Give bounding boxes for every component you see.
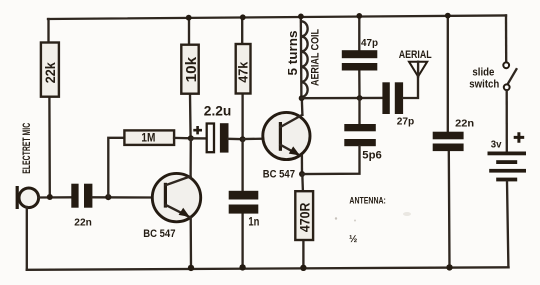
wire mic output to 22n (39, 196, 72, 199)
resistor 1M (124, 130, 174, 145)
wire 22n to Q1 base (92, 196, 152, 199)
scan smudge (403, 212, 411, 216)
svg-text:3v: 3v (491, 139, 502, 150)
svg-text:slide: slide (472, 66, 494, 78)
resistor 470R (295, 191, 313, 240)
scan speck (354, 220, 356, 222)
inductor L1 aerial coil (301, 16, 308, 98)
switch S1 slide switch (503, 62, 516, 90)
wire emitter to 470R (302, 174, 303, 268)
wire Q2 collector up (301, 98, 304, 115)
wire switch to battery (506, 90, 508, 151)
wire top rail right corner down to switch (505, 15, 508, 62)
svg-text:27p: 27p (397, 116, 415, 128)
node mic/22k junction (47, 194, 53, 200)
svg-text:5p6: 5p6 (362, 149, 382, 161)
svg-text:10k: 10k (184, 56, 200, 82)
capacitor 22n (left) (71, 184, 92, 229)
node 47k/2.2u/1n/Q2 base (240, 136, 246, 142)
wire mid rail (302, 97, 383, 100)
svg-text:BC 547: BC 547 (263, 168, 295, 180)
wire Q1 emitter down (190, 218, 193, 268)
capacitor 27p (382, 82, 414, 127)
wire top rail (48, 15, 506, 19)
capacitor 5p6 (344, 124, 382, 161)
svg-text:22k: 22k (42, 62, 58, 83)
wire 1M branch up and across (108, 138, 124, 197)
wire Q2 emitter down (301, 156, 303, 174)
capacitor 1n (229, 191, 260, 229)
electret mic (16, 186, 39, 209)
wire 47p drop (358, 16, 361, 98)
node mid rail / 47p / 27p / 5p6 (357, 95, 363, 101)
node coil top / rail (298, 14, 304, 20)
resistor 47k (236, 44, 251, 94)
antenna symbol (409, 62, 427, 77)
transistor Q1 BC547 (152, 173, 200, 221)
node top rail / 47k (240, 14, 246, 20)
wire 10k drop (189, 18, 191, 139)
wire left drop from rail to R 22k (49, 19, 50, 197)
wire 27p to aerial (403, 77, 418, 99)
node 22n/1M junction (105, 194, 111, 200)
svg-text:½: ½ (349, 234, 357, 245)
svg-text:2.2u: 2.2u (204, 103, 232, 119)
svg-text:5 turns: 5 turns (285, 31, 300, 76)
svg-text:AERIAL: AERIAL (399, 49, 432, 61)
node 10k/1M/2.2u/collector (188, 135, 194, 141)
svg-text:22n: 22n (74, 216, 92, 228)
svg-text:BC 547: BC 547 (143, 228, 175, 240)
capacitor 22n (right) (433, 118, 474, 152)
scan speck (335, 217, 337, 219)
wire 5p6 return to emitter (302, 146, 360, 174)
svg-text:1n: 1n (248, 215, 259, 229)
battery B1 3v (488, 132, 527, 181)
resistor 10k (181, 45, 200, 94)
wire 47k drop (241, 17, 244, 139)
svg-text:switch: switch (469, 79, 499, 91)
node top rail / 10k (186, 15, 192, 21)
wire 1M to node (174, 137, 191, 140)
wire Q1 collector up (189, 138, 192, 178)
wire battery to bottom rail (507, 181, 508, 267)
wire to 5p6 (358, 98, 360, 124)
node Q2 emitter / 5p6 return (299, 171, 305, 177)
capacitor 2.2u electrolytic (191, 103, 243, 153)
node 470R/bottom rail (300, 265, 306, 271)
wire 1n drop (241, 139, 243, 267)
wire 22n right drop (448, 16, 450, 268)
svg-text:47k: 47k (237, 62, 251, 83)
wire mic down to bottom rail (26, 207, 28, 270)
capacitor 47p (342, 37, 378, 71)
node top rail / 22n right (445, 13, 451, 19)
transistor Q2 BC547 (263, 112, 310, 159)
svg-text:ANTENNA:: ANTENNA: (349, 196, 386, 206)
wire bottom rail (27, 267, 509, 270)
node coil bottom / mid rail (299, 95, 305, 101)
node 1n/bottom rail (239, 264, 245, 270)
node top rail / 47p (356, 13, 362, 19)
svg-text:470R: 470R (296, 203, 312, 233)
svg-text:AERIAL COIL: AERIAL COIL (310, 29, 322, 86)
svg-text:47p: 47p (361, 37, 378, 49)
node 22n right / bottom rail (446, 264, 452, 270)
resistor 22k (41, 43, 59, 97)
svg-text:ELECTRET MIC: ELECTRET MIC (21, 123, 33, 174)
wire node to Q2 base (243, 138, 264, 141)
node emitter/bottom rail (188, 265, 194, 271)
svg-text:22n: 22n (455, 118, 474, 130)
svg-text:1M: 1M (141, 133, 155, 145)
